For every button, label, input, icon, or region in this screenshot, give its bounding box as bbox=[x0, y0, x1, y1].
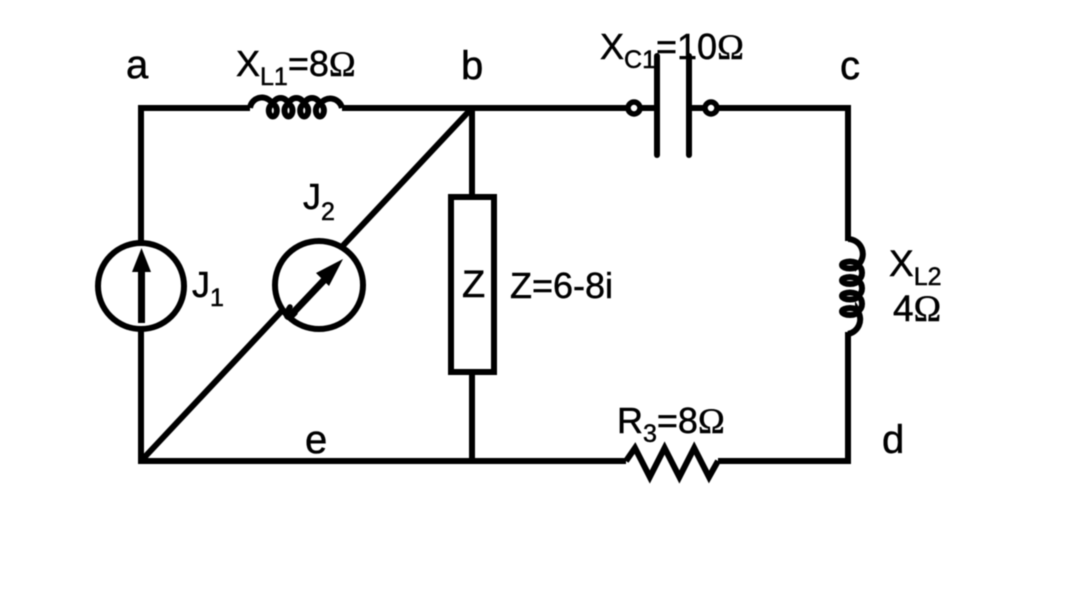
wire bottom right segment R3 to d bbox=[718, 458, 851, 464]
node label a bbox=[126, 45, 148, 85]
wire middle branch b down to e wire bbox=[469, 108, 475, 461]
wire right side below L2 bbox=[845, 332, 851, 461]
inductor label XL2 bbox=[889, 245, 942, 282]
wire bottom left segment to R3 bbox=[138, 458, 626, 464]
resistor label R3=8ohm bbox=[617, 403, 725, 439]
current source J2 circle bbox=[275, 241, 363, 329]
impedance value label Z=6-8i bbox=[510, 268, 613, 304]
inductor label XL1=8ohm bbox=[236, 46, 356, 82]
impedance letter Z bbox=[462, 266, 485, 304]
wire top right capacitor to c corner bbox=[692, 108, 848, 111]
node label e bbox=[305, 420, 327, 460]
capacitor XC1 right terminal circle bbox=[705, 102, 717, 114]
current source J2 arrow on diagonal bbox=[287, 259, 343, 317]
capacitor XC1 right plate bbox=[686, 56, 692, 155]
wire top middle L1 to capacitor left plate bbox=[342, 105, 654, 111]
wire diagonal from bottom-left corner to node b bbox=[141, 108, 472, 461]
current source J1 circle bbox=[98, 243, 184, 329]
node label c bbox=[840, 46, 860, 86]
capacitor label XC1=10ohm bbox=[600, 29, 744, 65]
capacitor XC1 left terminal circle bbox=[628, 102, 640, 114]
inductor value 4ohm bbox=[893, 290, 941, 328]
resistor R3 zigzag bbox=[626, 448, 718, 477]
inductor XL2 coil on right wire bbox=[842, 239, 863, 334]
inductor XL1 coil on top wire bbox=[250, 98, 342, 117]
node label b bbox=[461, 46, 483, 86]
capacitor XC1 left plate bbox=[654, 56, 660, 155]
node label d bbox=[882, 420, 904, 460]
impedance Z rectangle bbox=[451, 197, 494, 372]
source label J1 bbox=[192, 267, 224, 303]
wire top-left segment a to L1 bbox=[141, 108, 250, 111]
source label J2 bbox=[303, 179, 335, 215]
wire right side c down to d corner bbox=[845, 108, 851, 241]
current source J1 arrow bbox=[132, 248, 151, 323]
wire left side a down to bottom-left corner bbox=[138, 108, 144, 461]
